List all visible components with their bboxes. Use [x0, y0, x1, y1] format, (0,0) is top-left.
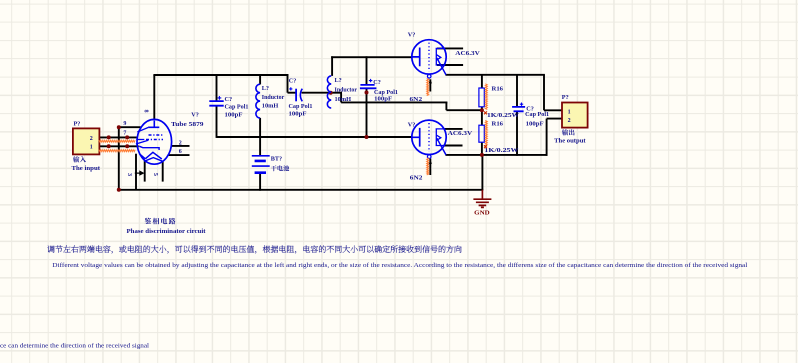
svg-text:Different voltage values can b: Different voltage values can be obtained… [52, 262, 747, 269]
svg-text:2: 2 [90, 136, 93, 142]
svg-text:R16: R16 [492, 121, 504, 128]
svg-text:7: 7 [123, 131, 126, 137]
wire [543, 75, 545, 111]
junction node 5 [117, 125, 121, 129]
ERC squiggle V2 grid [427, 79, 429, 96]
svg-text:Cap Pol1: Cap Pol1 [225, 104, 249, 111]
capacitor C3 plus [369, 79, 372, 82]
tube V3 grid bubble [427, 155, 431, 159]
svg-text:100pF: 100pF [526, 121, 544, 128]
battery BT1 [252, 156, 270, 166]
connector P1 input [73, 128, 100, 154]
svg-text:3: 3 [126, 173, 133, 176]
wire [516, 111, 518, 155]
tube V1 grid dashes 2 [146, 139, 163, 141]
ERC cross R16 lower [484, 145, 487, 148]
svg-text:V?: V? [408, 121, 416, 128]
inductor L1 coil [256, 84, 260, 118]
svg-text:1K/0.25W: 1K/0.25W [484, 147, 519, 154]
wire [287, 74, 289, 93]
svg-text:2: 2 [179, 141, 182, 147]
tube V1 filament vee [139, 154, 163, 162]
tube V1 grid3 lead [136, 140, 148, 144]
wire [118, 189, 483, 191]
wire [331, 56, 412, 58]
tube V2 grid dotted [428, 43, 430, 72]
wire [331, 56, 333, 76]
svg-text:2: 2 [568, 118, 571, 124]
wire [445, 145, 463, 147]
wire [259, 118, 261, 156]
junction node 1 [107, 135, 111, 139]
wire [445, 102, 447, 110]
tube V3 grid arrow [429, 160, 432, 164]
wire [340, 93, 342, 103]
wire [259, 74, 261, 84]
wire [118, 127, 120, 191]
svg-text:L?: L? [262, 85, 269, 92]
capacitor C4 plates [512, 107, 525, 111]
tube V1 5879 envelope [137, 119, 172, 164]
wire [216, 106, 218, 138]
tube V3 envelope [412, 120, 446, 154]
junction node 6 [117, 188, 121, 192]
ERC cross R16 upper [484, 111, 487, 114]
svg-text:6N2: 6N2 [410, 175, 423, 182]
svg-text:100pF: 100pF [374, 96, 392, 103]
svg-text:BT?: BT? [271, 156, 282, 163]
junction node 9 [365, 135, 369, 139]
svg-text:6: 6 [179, 149, 182, 155]
wire [446, 154, 548, 156]
svg-text:R16: R16 [492, 86, 504, 93]
ERC marker squiggle 2 [99, 150, 135, 152]
wire [366, 56, 368, 85]
svg-text:The input: The input [72, 165, 102, 172]
pin 3 arrow [135, 171, 144, 174]
wire [366, 88, 368, 138]
svg-text:GND: GND [474, 210, 490, 216]
resistor R16 upper body [479, 88, 484, 107]
svg-text:100pF: 100pF [289, 110, 307, 117]
tube V1 grid1 lead [137, 128, 148, 133]
wire [544, 109, 563, 111]
svg-text:C?: C? [289, 78, 297, 85]
svg-text:V?: V? [408, 32, 416, 39]
wire [153, 75, 155, 120]
svg-text:AC6.3V: AC6.3V [455, 50, 480, 57]
wire [341, 101, 447, 103]
ground GND [473, 190, 491, 208]
wire [288, 92, 297, 94]
tube V3 cathode [436, 129, 446, 146]
tube V2 grid arrow [429, 80, 432, 84]
svg-text:5: 5 [152, 173, 159, 176]
svg-text:Inductor: Inductor [262, 94, 285, 101]
pin 8 label [143, 110, 149, 113]
tube V2 cathode lead [437, 58, 446, 75]
wire [481, 142, 483, 155]
caption title chinese [145, 218, 176, 225]
svg-text:100pF: 100pF [225, 111, 243, 118]
svg-text:Cap Pol1: Cap Pol1 [525, 111, 549, 118]
wire [446, 74, 545, 76]
wire [171, 145, 190, 147]
wire [546, 119, 548, 156]
svg-text:P?: P? [74, 121, 81, 128]
tube V3 plate [412, 128, 420, 147]
junction node 8 [365, 91, 369, 95]
svg-text:P?: P? [562, 94, 569, 101]
wire [437, 64, 463, 66]
ERC squiggle V3 grid [427, 158, 429, 175]
tube V3 cathode lead [437, 138, 446, 155]
wire [217, 136, 413, 138]
capacitor C1 plates [209, 101, 223, 106]
tube V2 grid bubble [427, 75, 431, 79]
ERC squiggle R16 upper [485, 84, 487, 110]
label BT1 value chinese [271, 165, 289, 171]
junction node 10 [480, 108, 484, 112]
wire [331, 92, 342, 94]
tube V1 grid2 lead [136, 139, 144, 141]
wire [437, 47, 463, 49]
resistor R16 lower body [479, 125, 484, 142]
pin 3 label [126, 173, 133, 176]
junction node 2 [125, 135, 129, 139]
capacitor C3 plates [360, 85, 377, 88]
label output chinese [562, 129, 575, 135]
capacitor C2 plates [295, 89, 297, 102]
wire [516, 74, 518, 107]
tube V1 cathode [139, 146, 159, 150]
capacitor C1 plus [218, 96, 222, 100]
svg-text:6N2: 6N2 [410, 96, 423, 103]
svg-text:C?: C? [373, 79, 381, 86]
pin 5 label [152, 173, 159, 176]
tube V1 filament caret [145, 152, 162, 159]
tube V3 grid dotted [428, 123, 430, 152]
wire [445, 128, 463, 130]
svg-text:10mH: 10mH [262, 103, 279, 110]
wire [446, 109, 482, 111]
tube V2 envelope [412, 40, 446, 74]
svg-text:10mH: 10mH [335, 96, 352, 103]
wire [481, 74, 483, 88]
wire [481, 155, 483, 190]
ERC marker squiggle 1 [99, 140, 135, 142]
wire [135, 154, 137, 190]
svg-text:9: 9 [123, 121, 126, 127]
svg-text:ce can determine the direction: ce can determine the direction of the re… [0, 343, 149, 350]
capacitor C2 plus [289, 87, 292, 90]
svg-text:C?: C? [225, 96, 233, 103]
svg-text:Tube 5879: Tube 5879 [171, 121, 204, 128]
ERC squiggle R16 lower [485, 121, 487, 147]
junction node 7 [329, 91, 333, 95]
wire [429, 159, 431, 176]
wire [481, 107, 483, 126]
wire [547, 118, 563, 120]
capacitor C4 plus [520, 103, 523, 106]
junction node 4 [125, 144, 129, 148]
wire [168, 154, 190, 156]
connector P2 output [562, 103, 588, 128]
svg-text:8: 8 [143, 110, 149, 113]
wire [144, 161, 146, 182]
wire [216, 74, 218, 101]
inductor L2 coil [327, 76, 331, 108]
svg-text:1: 1 [568, 110, 571, 116]
label input chinese [73, 156, 86, 162]
tube V2 plate [412, 48, 420, 67]
wire [302, 92, 332, 94]
caption paragraph chinese [47, 245, 461, 253]
junction node 3 [107, 144, 111, 148]
tube V1 grid dashes 1 [149, 134, 163, 136]
svg-text:Cap Pol1: Cap Pol1 [289, 103, 313, 110]
svg-text:V?: V? [191, 111, 199, 118]
wire [162, 161, 164, 181]
svg-text:1K/0.25W: 1K/0.25W [487, 112, 520, 119]
tube V2 cathode [436, 48, 446, 65]
wire [99, 145, 139, 147]
wire [259, 173, 261, 191]
svg-text:L?: L? [335, 77, 342, 84]
tube V1 anode [148, 121, 159, 128]
svg-text:1: 1 [90, 144, 93, 150]
capacitor C2 curved plate [300, 89, 302, 102]
wire [99, 136, 138, 138]
wire [429, 79, 431, 91]
junction node 11 [480, 153, 484, 157]
svg-text:AC6.3V: AC6.3V [448, 130, 473, 137]
svg-text:The output: The output [554, 138, 586, 145]
svg-text:Inductor: Inductor [335, 87, 358, 94]
wire [153, 74, 288, 76]
wire [119, 126, 141, 128]
svg-text:Phase discriminator circuit: Phase discriminator circuit [127, 228, 207, 235]
